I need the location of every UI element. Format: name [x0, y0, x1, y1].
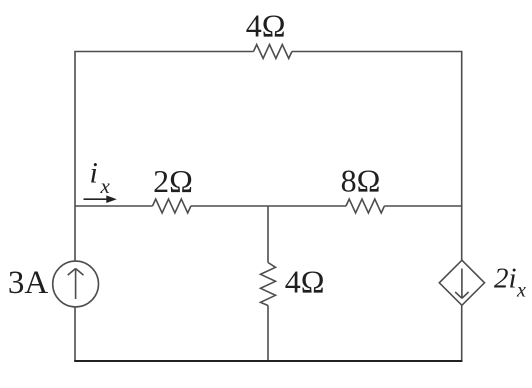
wire middle vertical bottom	[267, 306, 269, 362]
wire left above source	[74, 206, 76, 261]
wire middle-center segment	[191, 205, 346, 207]
resistor 4ohm top	[254, 45, 292, 59]
current source 3A circle	[53, 261, 99, 307]
svg-text:2i: 2i	[494, 263, 517, 295]
dependent current source 2ix arrow	[455, 269, 468, 299]
svg-text:3A: 3A	[8, 265, 49, 301]
resistor 2ohm	[153, 199, 191, 213]
svg-text:x: x	[516, 280, 526, 302]
wire top-left segment	[75, 52, 254, 207]
svg-text:2Ω: 2Ω	[153, 163, 193, 199]
current source 3A arrow	[68, 269, 84, 300]
resistor 8ohm	[346, 199, 384, 213]
wire left below source	[74, 307, 76, 361]
svg-text:4Ω: 4Ω	[246, 8, 286, 44]
svg-text:4Ω: 4Ω	[285, 264, 325, 300]
current ix arrow	[84, 195, 117, 203]
resistor 4ohm middle	[261, 263, 276, 306]
wire right below diamond	[461, 305, 463, 361]
wire bottom	[74, 360, 462, 362]
wire middle-left segment	[75, 205, 153, 207]
wire top-right segment	[292, 52, 462, 261]
wire middle vertical top	[267, 206, 269, 263]
svg-text:i: i	[90, 157, 98, 190]
dependent current source 2ix diamond	[439, 260, 484, 305]
svg-text:8Ω: 8Ω	[341, 163, 381, 199]
svg-text:x: x	[100, 174, 111, 198]
wire middle-right segment	[384, 205, 461, 207]
